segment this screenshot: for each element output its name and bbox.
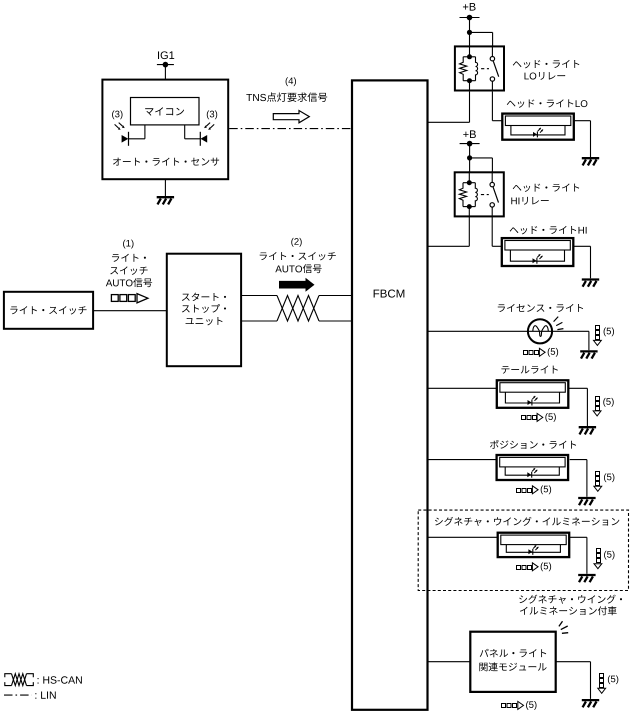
legend LIN line bbox=[4, 694, 32, 696]
label with signature wing illumination (1) bbox=[519, 595, 622, 604]
label head light LO relay bbox=[513, 60, 579, 68]
ground tail light bbox=[579, 427, 596, 434]
label LIN bbox=[35, 691, 55, 698]
label microcomputer bbox=[145, 107, 184, 115]
node +B LO branch bbox=[467, 30, 472, 35]
light switch box bbox=[4, 292, 93, 329]
wire license light to ground bbox=[588, 331, 590, 350]
label auto light sensor bbox=[113, 158, 219, 166]
label head light HI relay bbox=[513, 184, 579, 192]
auto-light-sensor box bbox=[102, 80, 228, 180]
connector (5) license bbox=[594, 326, 602, 346]
ground license light bbox=[580, 351, 597, 358]
connector (5) signature bbox=[594, 549, 602, 569]
wire tail light to ground bbox=[569, 387, 588, 389]
panel light module box bbox=[470, 632, 555, 692]
wire +B to LO relay coil bbox=[469, 18, 471, 47]
label +B lower bbox=[463, 130, 476, 138]
relay HI box bbox=[455, 172, 504, 216]
IG1 terminal bbox=[157, 64, 174, 66]
position light bulb bbox=[527, 472, 531, 477]
label HS-CAN bbox=[38, 676, 82, 683]
headlight LO reflector bbox=[511, 126, 565, 135]
wire branch to LO relay switch bbox=[470, 31, 493, 33]
label panel light module (1) bbox=[480, 649, 546, 657]
label panel light module (2) bbox=[479, 662, 546, 671]
wire LO relay switch to headlight LO bbox=[491, 92, 493, 121]
signature wing illumination box bbox=[498, 533, 570, 557]
wire light switch to start-stop unit bbox=[93, 310, 167, 312]
ground headlight LO bbox=[582, 158, 599, 165]
tail light box bbox=[497, 380, 569, 408]
wire HI relay switch to headlight HI bbox=[491, 218, 493, 247]
signature wing illumination lens bbox=[501, 535, 566, 545]
wire FBCM to license light bbox=[428, 330, 589, 332]
wire +B to HI relay coil bbox=[469, 144, 471, 173]
wire LO relay coil to FBCM bbox=[469, 92, 471, 123]
wire microcomputer to right photodiode bbox=[184, 125, 186, 139]
label (4) bbox=[286, 77, 296, 86]
label light switch bbox=[10, 306, 86, 314]
connector (5) below panel bbox=[502, 701, 524, 709]
label +B upper bbox=[463, 3, 476, 11]
label signature wing illumination bbox=[435, 517, 619, 526]
wire headlight LO to ground bbox=[574, 120, 591, 122]
+B terminal lower bbox=[460, 143, 480, 145]
headlight LO box bbox=[502, 114, 574, 140]
headlight HI lens bbox=[505, 241, 570, 251]
wire position light to ground bbox=[570, 459, 587, 461]
wire branch to HI relay switch bbox=[470, 157, 493, 159]
dashed option box bbox=[418, 510, 628, 590]
connector (5) tail bbox=[593, 397, 601, 416]
wire HI relay coil to FBCM bbox=[468, 218, 470, 247]
relay LO switch contact bbox=[490, 57, 494, 61]
wire signature light to ground bbox=[570, 536, 587, 538]
label with signature wing illumination (2) bbox=[520, 606, 617, 615]
ground sensor bbox=[157, 197, 174, 204]
label tail light bbox=[501, 366, 557, 374]
license light bulb bbox=[528, 319, 552, 343]
wire microcomputer to left photodiode bbox=[144, 125, 146, 139]
wire FBCM to panel module bbox=[428, 661, 471, 663]
license light rays bbox=[554, 317, 564, 330]
light arrows left bbox=[115, 123, 123, 129]
microcomputer box bbox=[131, 98, 200, 125]
open arrow TNS bbox=[273, 111, 309, 123]
connector (5) below tail bbox=[522, 413, 543, 421]
ground headlight HI bbox=[582, 280, 599, 287]
label FBCM bbox=[374, 289, 405, 297]
label (3) right bbox=[207, 110, 217, 119]
LIN wire sensor to FBCM bbox=[229, 128, 352, 130]
legend HS-CAN symbol bbox=[5, 674, 34, 686]
+B terminal upper bbox=[460, 17, 480, 19]
ground position light bbox=[578, 498, 595, 505]
headlight LO lens bbox=[505, 116, 570, 126]
connector squares arrow (1) bbox=[111, 294, 147, 303]
label (3) left bbox=[112, 110, 122, 119]
HS-CAN twisted pair wires bbox=[241, 295, 277, 297]
headlight HI box bbox=[502, 238, 574, 266]
relay LO coil bbox=[469, 45, 471, 57]
wire sensor to ground bbox=[164, 179, 166, 196]
connector (5) below signature bbox=[517, 563, 539, 571]
label TNS lighting request signal bbox=[246, 92, 327, 101]
connector (5) position bbox=[594, 472, 602, 492]
light arrows right bbox=[206, 123, 214, 129]
wire FBCM to position light bbox=[428, 459, 497, 461]
label license light bbox=[498, 304, 583, 312]
label position light bbox=[490, 440, 576, 449]
relay HI coil bbox=[468, 171, 470, 183]
panel module light rays bbox=[559, 621, 568, 633]
wire headlight HI to ground bbox=[574, 245, 591, 247]
wire FBCM to signature wing illumination bbox=[428, 536, 498, 538]
connector (5) panel bbox=[598, 674, 606, 694]
label (2) bbox=[291, 238, 301, 247]
relay LO box bbox=[455, 46, 504, 90]
headlight HI reflector bbox=[510, 250, 564, 261]
tail light reflector bbox=[505, 392, 559, 403]
headlight HI bulb bbox=[533, 258, 537, 263]
ground signature light bbox=[578, 575, 595, 582]
position light reflector bbox=[505, 467, 559, 475]
position light lens bbox=[500, 457, 565, 467]
ground panel module bbox=[582, 700, 599, 707]
relay HI switch contact bbox=[490, 182, 494, 186]
signature wing illumination reflector bbox=[506, 545, 560, 553]
node +B HI branch bbox=[467, 155, 472, 160]
tail light bulb bbox=[528, 400, 532, 405]
label IG1 bbox=[158, 51, 174, 59]
wire FBCM to tail light bbox=[428, 387, 497, 389]
label (1) bbox=[123, 240, 133, 249]
label head light LO bbox=[507, 99, 588, 107]
black arrow (2) bbox=[279, 278, 315, 292]
connector (5) below license bbox=[524, 348, 546, 356]
headlight LO bulb bbox=[533, 132, 537, 137]
label head light HI bbox=[510, 226, 587, 234]
position light box bbox=[497, 455, 568, 480]
wire panel module to ground bbox=[556, 661, 591, 663]
wire IG1 to sensor box bbox=[164, 65, 166, 80]
signature wing illumination bulb bbox=[528, 549, 532, 554]
tail light lens bbox=[500, 383, 565, 393]
connector (5) below position bbox=[517, 486, 539, 494]
FBCM box bbox=[352, 80, 428, 709]
label start-stop unit bbox=[182, 293, 226, 301]
start-stop unit box bbox=[167, 254, 241, 367]
